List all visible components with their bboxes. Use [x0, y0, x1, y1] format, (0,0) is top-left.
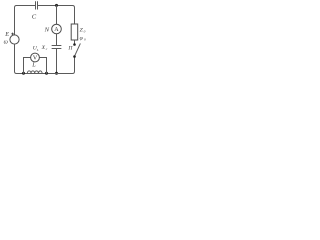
polarity plus sign: [11, 33, 14, 35]
switch blade: [75, 44, 81, 56]
node dot bottom left of voltmeter branch: [22, 72, 25, 75]
svg-text:L: L: [36, 48, 39, 52]
wire capacitor Xc down to bottom node: [56, 49, 58, 74]
switch terminal dot top: [73, 43, 76, 46]
wire ammeter to capacitor Xc: [56, 34, 58, 46]
capacitor C plates: [36, 2, 38, 10]
svg-text:A: A: [54, 27, 59, 33]
wire middle branch upper: [56, 6, 58, 25]
inductor L coil: [27, 71, 42, 74]
svg-text:ω: ω: [4, 40, 8, 46]
wire from capacitor C to top-right corner down to impedance Z: [38, 6, 75, 25]
ammeter A circle: [52, 24, 62, 34]
wire voltmeter branch right: [39, 58, 46, 74]
wire voltmeter branch left: [24, 58, 31, 74]
svg-text:0: 0: [84, 30, 86, 34]
wire source to bottom-left corner: [15, 44, 43, 73]
svg-text:φ: φ: [80, 35, 83, 41]
svg-text:C: C: [32, 14, 37, 21]
switch terminal dot bottom: [73, 55, 76, 58]
node dot bottom right of voltmeter branch: [45, 72, 48, 75]
svg-text:c: c: [46, 47, 48, 51]
node junction dot top middle: [55, 4, 58, 7]
node dot bottom middle: [55, 72, 58, 75]
capacitor Xc plates: [52, 46, 61, 49]
wire impedance to switch: [74, 40, 76, 44]
svg-text:N: N: [44, 27, 50, 34]
wire bottom right segment: [42, 58, 74, 74]
svg-text:L: L: [31, 61, 36, 68]
svg-text:0: 0: [84, 38, 86, 42]
svg-text:П: П: [67, 46, 73, 52]
source E circle: [10, 35, 19, 44]
impedance Z rectangle: [71, 24, 78, 40]
svg-text:E: E: [4, 31, 9, 38]
voltmeter V circle: [31, 53, 40, 62]
wire top-left from source up and across to capacitor C: [15, 6, 36, 35]
